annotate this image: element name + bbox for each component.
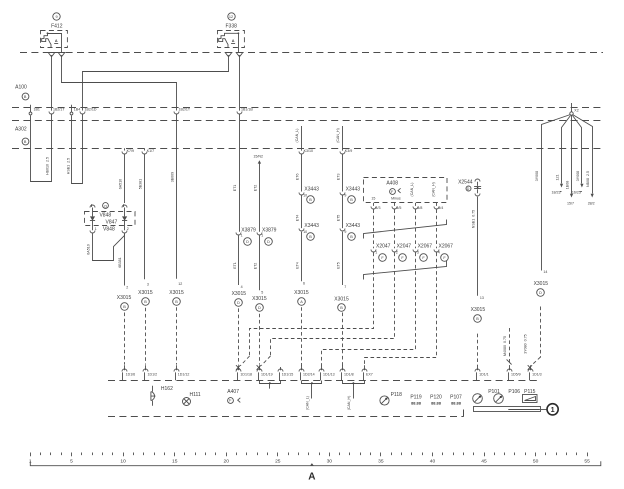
pin 1D1/13 <box>321 365 323 370</box>
svg-text:1D1/18: 1D1/18 <box>240 373 252 377</box>
wire ET1 lower to X3015.4 <box>238 236 240 286</box>
svg-text:F412: F412 <box>51 23 63 29</box>
svg-text:1B2/1T: 1B2/1T <box>53 108 65 112</box>
svg-text:M4080 0.75: M4080 0.75 <box>503 336 507 356</box>
svg-text:A302: A302 <box>15 127 27 133</box>
svg-text:D: D <box>467 187 470 191</box>
svg-text:A407: A407 <box>227 389 239 395</box>
svg-text:F: F <box>443 256 446 260</box>
pin 1D1/2 <box>145 365 147 370</box>
svg-text:ET3: ET3 <box>337 174 341 181</box>
svg-text:88.88: 88.88 <box>411 401 422 406</box>
svg-text:X2544: X2544 <box>458 179 473 185</box>
svg-text:F: F <box>422 256 425 260</box>
svg-text:1: 1 <box>551 405 555 414</box>
fuse F338 dashed box <box>218 31 245 48</box>
svg-text:1B2/1T: 1B2/1T <box>179 108 191 112</box>
wire ET4 mid <box>301 195 303 228</box>
svg-text:X3879: X3879 <box>262 228 277 234</box>
svg-text:6A510: 6A510 <box>87 244 91 254</box>
svg-text:5: 5 <box>70 458 73 464</box>
wire dashed X3015.12 drop <box>176 307 178 364</box>
wire dashed 4/5 to X2047.2 <box>394 209 396 248</box>
node X2 <box>570 112 573 115</box>
shield line lower <box>364 261 447 280</box>
svg-text:P120: P120 <box>430 394 442 400</box>
fuse F412 dashed box <box>41 31 68 48</box>
svg-text:V848: V848 <box>103 226 115 232</box>
wire branch 2 <box>562 116 571 184</box>
svg-text:H162: H162 <box>161 386 173 392</box>
node X2 stub <box>571 103 573 112</box>
svg-text:ET6: ET6 <box>295 174 299 181</box>
svg-text:4/3: 4/3 <box>376 206 381 210</box>
svg-text:A: A <box>308 472 315 483</box>
svg-text:9: 9 <box>55 15 57 19</box>
svg-text:3: 3 <box>147 282 149 286</box>
pin 1D1/3 <box>528 365 532 370</box>
wire 6A510 down to diode box <box>124 154 126 203</box>
wire V848 lower loop <box>93 234 125 261</box>
svg-text:4: 4 <box>241 285 243 289</box>
wire ET2 upper <box>259 163 261 232</box>
wire dashed X3015.5 drop <box>259 314 261 365</box>
module A408 id circle F <box>390 189 396 195</box>
wire dashed 4/4 to X2067.4 <box>436 209 438 248</box>
wire: dashed bus line 30 (battery feed) <box>20 52 603 54</box>
svg-text:K7/9: K7/9 <box>127 149 134 153</box>
svg-text:HB010 2.5: HB010 2.5 <box>45 157 49 175</box>
svg-text:F: F <box>229 399 232 403</box>
svg-text:X3015: X3015 <box>294 290 309 296</box>
svg-text:F: F <box>401 256 404 260</box>
fuse F338 pin 1 contact <box>225 53 232 56</box>
pin 1D1/12 <box>176 365 178 370</box>
pin 1D1/19 <box>257 365 261 370</box>
svg-text:X3443: X3443 <box>304 186 319 192</box>
svg-text:EX7: EX7 <box>366 373 373 377</box>
svg-text:3Y008: 3Y008 <box>535 171 539 181</box>
svg-text:1D1/13: 1D1/13 <box>323 373 335 377</box>
svg-text:P106: P106 <box>508 389 520 395</box>
svg-text:30: 30 <box>327 458 333 464</box>
svg-text:2: 2 <box>127 227 129 231</box>
svg-text:1D5/9: 1D5/9 <box>511 373 521 377</box>
svg-text:1B1: 1B1 <box>34 108 40 112</box>
svg-text:X3879: X3879 <box>241 228 256 234</box>
wire F412 pin2 to pin 1B2/1D riser <box>62 56 177 111</box>
pin EX7 <box>364 365 366 370</box>
svg-text:B: B <box>123 305 126 309</box>
wire ET5 lower to X3015.7 <box>342 232 344 285</box>
svg-text:6B381: 6B381 <box>118 257 122 267</box>
svg-text:6A510: 6A510 <box>119 179 123 189</box>
svg-text:10: 10 <box>303 193 307 197</box>
wire bridge 1D1/8-EX7 <box>343 381 365 384</box>
svg-text:HSB1 2.5: HSB1 2.5 <box>66 158 70 174</box>
arrow 18/23 <box>560 184 563 188</box>
arrow 16/25 <box>580 184 583 188</box>
wire bridge 1D1/19-1D1/15 <box>260 381 281 384</box>
wire bridge 1D2/14-1D1/13 <box>302 381 322 384</box>
svg-text:13: 13 <box>480 296 484 300</box>
svg-text:D: D <box>104 204 107 208</box>
svg-text:1B1/1B: 1B1/1B <box>241 108 253 112</box>
diode box id circle D <box>103 203 109 209</box>
svg-text:1D1/19: 1D1/19 <box>261 373 273 377</box>
svg-text:X3443: X3443 <box>346 186 361 192</box>
pin 1D5/9 <box>509 365 511 370</box>
svg-text:3B009: 3B009 <box>171 172 175 182</box>
wire dashed X3015.2 drop <box>124 313 126 365</box>
svg-text:15/N2: 15/N2 <box>253 154 263 158</box>
svg-text:V848: V848 <box>99 213 111 219</box>
wire dashed X3015.4 drop <box>238 308 240 364</box>
diode V847 <box>124 208 126 217</box>
svg-text:1D1/2: 1D1/2 <box>148 373 158 377</box>
pin 4/3 <box>373 203 375 206</box>
pin 1D1/6 <box>124 365 126 370</box>
svg-text:ET1: ET1 <box>233 262 237 269</box>
svg-text:F: F <box>391 190 394 194</box>
svg-text:28/2: 28/2 <box>588 201 595 205</box>
svg-text:12: 12 <box>178 282 182 286</box>
svg-text:15: 15 <box>172 458 178 464</box>
svg-text:X2: X2 <box>574 108 578 112</box>
wire dashed X2047.2 route to 1D1/19 <box>271 253 395 357</box>
svg-text:3Y008: 3Y008 <box>576 171 580 181</box>
svg-text:1D1/12: 1D1/12 <box>178 373 190 377</box>
svg-text:D: D <box>237 301 240 305</box>
module A408 dashed box <box>364 178 448 203</box>
svg-text:K1/7: K1/7 <box>147 149 154 153</box>
svg-text:A: A <box>300 300 303 304</box>
diode V847 top contact <box>122 205 127 208</box>
svg-text:40: 40 <box>430 458 436 464</box>
pin 1D1/8 <box>342 365 344 370</box>
wire dashed X2067.4 route to EX7 <box>365 253 437 366</box>
svg-text:(CAN_L): (CAN_L) <box>410 183 414 197</box>
diode V847 bottom contact <box>122 231 127 234</box>
callout circle 1 <box>547 404 558 415</box>
svg-text:X2067: X2067 <box>439 243 454 249</box>
svg-text:14: 14 <box>543 270 547 274</box>
svg-text:H111: H111 <box>190 392 201 398</box>
svg-text:(CAN_L): (CAN_L) <box>306 396 310 410</box>
svg-text:15: 15 <box>371 196 375 200</box>
svg-text:12: 12 <box>229 15 233 19</box>
svg-text:9: 9 <box>344 193 346 197</box>
ruler caret <box>310 463 314 466</box>
svg-text:X3015: X3015 <box>252 296 267 302</box>
wire dashed 4/8 to X2067.3 <box>415 209 417 248</box>
svg-text:1D2/14: 1D2/14 <box>303 373 315 377</box>
svg-text:1: 1 <box>241 234 243 238</box>
svg-text:K3/9: K3/9 <box>345 149 352 153</box>
svg-text:B: B <box>144 300 147 304</box>
svg-text:50: 50 <box>533 458 539 464</box>
wire: dashed boundary A100/A302 <box>12 120 603 122</box>
svg-text:D: D <box>539 291 542 295</box>
wire HSB1 2.5 loop <box>72 114 83 184</box>
svg-text:18/23: 18/23 <box>552 190 561 194</box>
wire: cluster top dashed boundary <box>108 380 541 382</box>
svg-text:NB08 2.5: NB08 2.5 <box>586 171 590 187</box>
svg-text:4: 4 <box>438 250 440 254</box>
svg-text:35: 35 <box>378 458 384 464</box>
wire 5B381 down to X3015.3 <box>144 154 146 279</box>
svg-text:4/5: 4/5 <box>396 206 401 210</box>
svg-text:P107: P107 <box>450 394 462 400</box>
wire branch 3 <box>571 115 573 194</box>
svg-text:10: 10 <box>303 230 307 234</box>
svg-text:ET5: ET5 <box>337 262 341 269</box>
callout line to 1 <box>541 409 547 411</box>
svg-text:B: B <box>350 235 353 239</box>
shield line upper <box>364 220 447 239</box>
svg-text:2: 2 <box>126 285 128 289</box>
svg-text:1B4: 1B4 <box>74 108 80 112</box>
svg-text:1: 1 <box>375 250 377 254</box>
svg-text:X2047: X2047 <box>376 243 391 249</box>
svg-text:A: A <box>232 39 235 43</box>
svg-text:B: B <box>340 306 343 310</box>
wire ET1 upper <box>239 114 241 232</box>
svg-text:3: 3 <box>417 250 419 254</box>
svg-text:V847: V847 <box>106 219 118 225</box>
pin 1D1/18 <box>236 365 240 370</box>
wire CAN_H stub <box>342 126 344 151</box>
wire dashed X3015.6 drop <box>301 307 303 366</box>
svg-text:A100: A100 <box>15 85 27 91</box>
pin 4/8 <box>415 203 417 206</box>
svg-text:B: B <box>476 317 479 321</box>
pin 4/5 <box>394 203 396 206</box>
svg-text:B: B <box>24 140 27 144</box>
svg-text:(CAN_L): (CAN_L) <box>295 129 299 143</box>
svg-text:10: 10 <box>120 458 126 464</box>
svg-text:X3015: X3015 <box>334 297 349 303</box>
svg-text:D: D <box>258 306 261 310</box>
svg-text:ET4: ET4 <box>295 215 299 222</box>
wire dashed 4/3 to X2047.1 <box>373 209 375 248</box>
wire dashed X3015.3 drop <box>145 308 147 365</box>
svg-text:88.88: 88.88 <box>451 401 462 406</box>
svg-text:X3015: X3015 <box>471 307 486 313</box>
wire: dashed boundary A100 top <box>12 107 603 109</box>
svg-text:5B381: 5B381 <box>139 179 143 189</box>
svg-text:55: 55 <box>584 458 590 464</box>
svg-text:88.88: 88.88 <box>431 401 442 406</box>
arrow 28/2 <box>591 194 594 198</box>
wire branch 5 <box>573 115 593 194</box>
wire: cluster bottom dashed boundary <box>108 416 464 418</box>
diode V848 bottom contact <box>90 231 95 234</box>
wire 3B009 down to X3015.12 <box>176 114 178 279</box>
svg-text:P115: P115 <box>524 389 536 395</box>
svg-text:25: 25 <box>275 458 281 464</box>
svg-text:A: A <box>55 39 58 43</box>
svg-text:9: 9 <box>344 230 346 234</box>
svg-text:P118: P118 <box>391 392 403 398</box>
wire F338 pin1 to left riser <box>83 56 229 111</box>
wire dashed X2047.1 route to 1D1/18 <box>250 253 374 357</box>
svg-text:1D1/1: 1D1/1 <box>479 373 489 377</box>
svg-text:1B08: 1B08 <box>566 181 570 189</box>
pin 1D2/14 <box>301 365 303 370</box>
diode V848 <box>92 208 94 217</box>
svg-text:4/4: 4/4 <box>438 206 443 210</box>
svg-text:16/25: 16/25 <box>572 190 581 194</box>
svg-text:B: B <box>350 198 353 202</box>
svg-text:X3015: X3015 <box>138 290 153 296</box>
wire ET4 lower to X3015.6 <box>301 232 303 282</box>
svg-text:X2047: X2047 <box>397 243 412 249</box>
wire F338 pin2 down <box>239 56 241 111</box>
svg-text:1B2/1D: 1B2/1D <box>85 108 97 112</box>
svg-text:Minus: Minus <box>391 196 401 200</box>
pin 1D1/15 <box>280 367 282 370</box>
wire dashed X3015.14 drop <box>540 307 542 358</box>
svg-text:X3015: X3015 <box>232 291 247 297</box>
svg-text:1D1/8: 1D1/8 <box>344 373 354 377</box>
svg-text:6: 6 <box>303 281 305 285</box>
svg-text:4/8: 4/8 <box>417 206 422 210</box>
svg-text:X3015: X3015 <box>169 290 184 296</box>
svg-text:P119: P119 <box>410 394 422 400</box>
svg-text:ET2: ET2 <box>253 263 257 270</box>
svg-text:B: B <box>309 235 312 239</box>
svg-text:X3015: X3015 <box>117 295 132 301</box>
fuse F338 id circle 12 <box>228 13 235 20</box>
svg-text:A408: A408 <box>386 181 398 187</box>
svg-text:(CAN_H): (CAN_H) <box>431 182 435 197</box>
wire ET2 lower to X3015.5 <box>259 236 261 291</box>
pin 4/4 <box>436 203 438 206</box>
svg-text:ET5: ET5 <box>337 215 341 222</box>
svg-text:(CAN_H): (CAN_H) <box>336 128 340 143</box>
bar display <box>474 407 541 412</box>
ruler ticks <box>31 453 588 457</box>
svg-text:1: 1 <box>95 227 97 231</box>
wire 6B381 to X3015.2 <box>124 234 126 286</box>
wire NSB1 to X3015.13 <box>477 197 479 296</box>
svg-text:121: 121 <box>555 175 559 181</box>
svg-text:B: B <box>24 95 27 99</box>
wire HB010 2.5 loop <box>31 114 52 182</box>
svg-text:5: 5 <box>261 290 263 294</box>
svg-text:B: B <box>309 198 312 202</box>
svg-text:3Y080 0.75: 3Y080 0.75 <box>524 334 528 353</box>
svg-text:20: 20 <box>223 458 229 464</box>
ruler baseline <box>30 461 601 465</box>
arrow 15/7 <box>570 194 573 198</box>
wire dashed X3015.7 drop <box>342 313 344 366</box>
svg-text:D: D <box>246 240 249 244</box>
fuse F412 id circle 9 <box>53 13 60 20</box>
fuse F338 element <box>238 32 240 34</box>
wire dashed X2067.3 route to 1D1/13 <box>322 253 416 366</box>
pin 1D1/1 <box>477 365 479 370</box>
wire branch 1 to X3015.14 <box>542 115 571 271</box>
svg-text:X3015: X3015 <box>534 281 549 287</box>
svg-text:45: 45 <box>481 458 487 464</box>
svg-text:15/7: 15/7 <box>567 201 574 205</box>
svg-text:D: D <box>267 240 270 244</box>
diode box dashed rect <box>85 212 136 226</box>
svg-text:NSB1 0.75: NSB1 0.75 <box>471 210 475 228</box>
wire ET5 mid <box>342 195 344 228</box>
wire CAN_L stub <box>301 126 303 151</box>
wire ET3 upper <box>342 154 344 191</box>
fuse F338 pin 2 contact <box>236 53 243 56</box>
svg-text:1: 1 <box>261 234 263 238</box>
wire dashed X3015.13 drop <box>477 334 479 366</box>
svg-text:7: 7 <box>344 285 346 289</box>
svg-text:1D1/6: 1D1/6 <box>126 373 136 377</box>
wire F412 pin1 down to 1B2/1T <box>51 56 53 111</box>
svg-text:ET2: ET2 <box>253 185 257 192</box>
svg-text:1D1/15: 1D1/15 <box>282 373 294 377</box>
wire ET6 upper <box>301 154 303 191</box>
wire dashed M4080 drop <box>509 328 511 366</box>
fuse F412 element <box>47 32 49 34</box>
wire branch 4 <box>573 116 582 184</box>
svg-text:F338: F338 <box>225 23 237 29</box>
svg-text:F: F <box>381 256 384 260</box>
svg-text:2: 2 <box>396 250 398 254</box>
svg-text:K3/10: K3/10 <box>304 149 313 153</box>
fuse F412 pin 2 contact <box>58 53 65 56</box>
fuse F412 pin 1 contact <box>48 53 55 56</box>
svg-text:B: B <box>175 300 178 304</box>
svg-text:ET4: ET4 <box>295 262 299 269</box>
wire: dashed boundary A302 bottom <box>12 148 603 150</box>
svg-text:X2067: X2067 <box>418 243 433 249</box>
diode V848 top contact <box>90 205 95 208</box>
svg-text:X3443: X3443 <box>346 223 361 229</box>
svg-text:(CAN_H): (CAN_H) <box>347 396 351 411</box>
svg-text:1D1/3: 1D1/3 <box>532 373 542 377</box>
svg-text:X3443: X3443 <box>304 223 319 229</box>
svg-text:ET1: ET1 <box>233 185 237 192</box>
